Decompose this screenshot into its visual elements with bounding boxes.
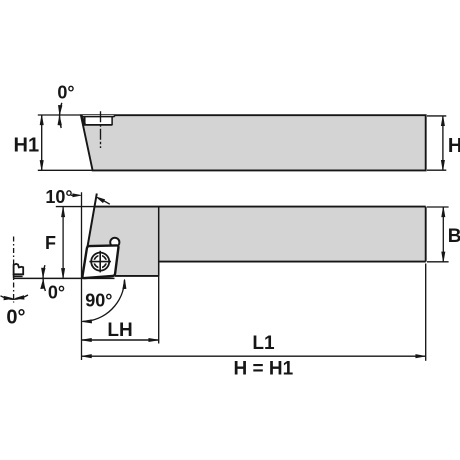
side view shank silhouette <box>81 115 426 170</box>
H arrow up <box>441 116 444 125</box>
insert (top view) <box>82 245 118 278</box>
insert screw inner clover <box>94 256 106 268</box>
screw clover pinches <box>93 254 108 269</box>
0 deg arc (top view tip) <box>43 265 45 291</box>
screw axis centerline <box>100 111 102 148</box>
H top extension line <box>427 115 446 117</box>
LH dimension line <box>82 339 159 341</box>
H1 bottom extension line <box>38 169 92 171</box>
F dimension line <box>62 207 64 278</box>
LH right extension line <box>158 263 160 344</box>
H arrow down <box>441 160 444 169</box>
front view nose bar <box>13 275 23 277</box>
shank bottom edge <box>159 261 426 263</box>
insert right edge (side view) <box>111 117 113 126</box>
90 deg arc <box>83 280 125 322</box>
svg-text:10°: 10° <box>45 187 72 207</box>
svg-text:H: H <box>448 135 460 157</box>
svg-text:F: F <box>45 233 56 253</box>
screw crosshair vertical <box>99 251 101 273</box>
F arrow up <box>62 207 65 216</box>
90 deg arrow left <box>82 320 92 323</box>
insert left edge (side view) <box>84 117 86 126</box>
L1 arrow right <box>416 355 425 358</box>
front view insert profile <box>14 264 24 275</box>
insert screw hole outer circle <box>91 253 109 271</box>
LH arrow left <box>82 338 91 341</box>
vertical reference line through tip <box>81 192 83 360</box>
head-shank step <box>158 207 160 276</box>
H1 arrow down <box>40 161 43 170</box>
L1 dimension line <box>82 355 426 357</box>
svg-text:B: B <box>448 226 460 247</box>
svg-text:0°: 0° <box>57 82 74 102</box>
F arrow down <box>62 269 65 278</box>
svg-text:0°: 0° <box>6 307 25 329</box>
svg-text:90°: 90° <box>85 291 112 311</box>
B dimension line <box>442 207 444 262</box>
L1 arrow left <box>82 355 91 358</box>
H1 dimension line <box>41 115 43 170</box>
head slant edge with extension <box>82 194 97 279</box>
H dimension line <box>442 116 444 170</box>
H1 top extension line <box>38 114 81 116</box>
top edge <box>94 206 426 208</box>
side view insert pocket (white) <box>82 115 115 125</box>
svg-text:H1: H1 <box>14 135 40 157</box>
lock pin boss <box>110 238 119 245</box>
swing arc (front view) <box>1 295 29 299</box>
svg-text:0°: 0° <box>48 282 65 302</box>
pocket bottom edge <box>84 124 113 126</box>
90 deg arrow up <box>123 279 126 288</box>
tip reference line <box>14 277 115 279</box>
B arrow down <box>442 252 445 261</box>
top edge extension left <box>56 206 94 208</box>
front view centerline <box>13 237 15 303</box>
svg-text:L1: L1 <box>252 333 275 354</box>
L1 right extension line <box>425 264 427 361</box>
10 deg leader <box>71 194 75 196</box>
head bottom edge <box>115 275 159 277</box>
pocket left wall <box>81 115 85 125</box>
0 degree rake arc (side view) <box>60 103 62 128</box>
B top extension line <box>427 206 449 208</box>
H bottom extension line <box>427 169 446 171</box>
pocket back step <box>113 115 115 117</box>
B arrow up <box>442 207 445 216</box>
front view left edge lower <box>13 274 15 278</box>
10 deg arc arrow on slant edge <box>101 199 110 204</box>
right end edge <box>425 207 427 262</box>
LH arrow right <box>149 338 158 341</box>
top view body <box>82 207 425 276</box>
svg-text:LH: LH <box>107 320 132 341</box>
H1 arrow up <box>40 115 43 124</box>
insert top edge (side view) <box>82 116 114 118</box>
10 deg leader arrow <box>73 194 81 197</box>
screw crosshair horizontal <box>89 261 111 263</box>
B bottom extension line <box>427 261 449 263</box>
svg-text:H = H1: H = H1 <box>234 358 294 379</box>
